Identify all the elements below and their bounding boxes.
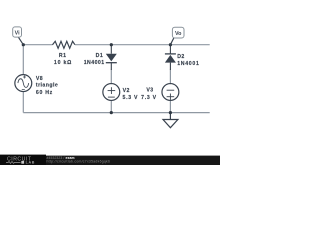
svg-text:R1: R1	[59, 53, 67, 59]
svg-text:Vi: Vi	[15, 30, 20, 36]
svg-text:5.3 V: 5.3 V	[123, 95, 139, 101]
svg-text:D1: D1	[96, 53, 104, 59]
svg-text:Vo: Vo	[175, 31, 182, 37]
svg-text:V3: V3	[146, 88, 153, 94]
svg-text:D2: D2	[177, 54, 185, 60]
svg-text:1N4001: 1N4001	[84, 60, 105, 66]
svg-text:7.3 V: 7.3 V	[141, 95, 157, 101]
svg-text:triangle: triangle	[36, 83, 58, 89]
svg-text:http://circuitlab.com/c7x35adk: http://circuitlab.com/c7x35adk6gqk6	[47, 160, 111, 164]
svg-text:10 kΩ: 10 kΩ	[54, 60, 72, 66]
svg-text:V8: V8	[36, 76, 43, 82]
svg-text:60 Hz: 60 Hz	[36, 90, 53, 96]
svg-text:LAB: LAB	[26, 161, 35, 165]
svg-text:V2: V2	[123, 88, 130, 94]
svg-text:1N4001: 1N4001	[177, 61, 199, 67]
